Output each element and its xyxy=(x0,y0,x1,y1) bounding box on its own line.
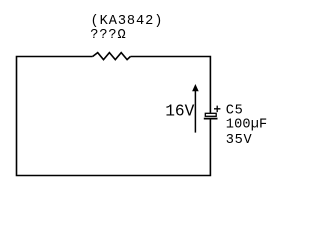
capacitor C5 bottom plate xyxy=(204,118,218,120)
svg-text:35V: 35V xyxy=(226,133,253,148)
svg-text:(KA3842): (KA3842) xyxy=(91,14,164,29)
svg-text:100µF: 100µF xyxy=(226,118,268,133)
svg-text:16V: 16V xyxy=(165,103,194,121)
plus sign of C5 xyxy=(214,106,220,113)
resistor (???Ω) zigzag xyxy=(93,53,131,60)
voltage arrow for 16V xyxy=(194,90,196,133)
svg-text:C5: C5 xyxy=(226,103,244,118)
wire: top right segment down to capacitor C5 xyxy=(130,57,210,113)
wire: left side + bottom + lower right of loop xyxy=(17,57,211,176)
capacitor C5 top plate (hollow rect) xyxy=(205,113,216,116)
svg-text:???Ω: ???Ω xyxy=(90,28,126,43)
